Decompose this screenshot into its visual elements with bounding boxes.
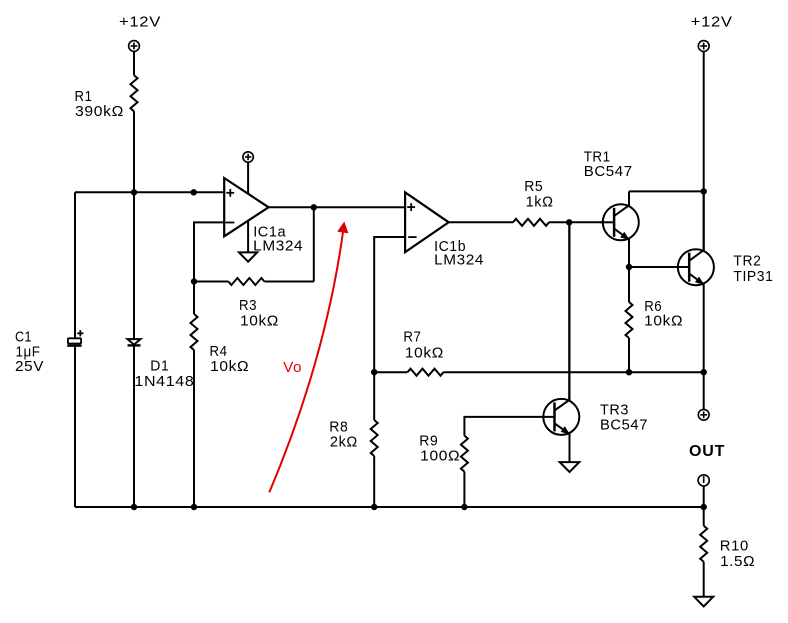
svg-text:TIP31: TIP31 xyxy=(733,268,773,285)
wire R5 to TR1 base xyxy=(549,221,614,223)
svg-text:25V: 25V xyxy=(15,358,44,375)
wire TR3 collector riser xyxy=(568,222,570,399)
op-amp U1 IC1a power pin xyxy=(247,162,249,196)
wire inverting input IC1a xyxy=(194,222,224,314)
power symbol +12V right xyxy=(698,41,709,52)
resistor R3 xyxy=(228,278,264,285)
svg-text:10kΩ: 10kΩ xyxy=(644,313,683,330)
node R3/R4 junction xyxy=(191,278,197,284)
svg-text:+12V: +12V xyxy=(691,14,733,31)
node on + input wire xyxy=(191,189,197,195)
wire Vo red curve xyxy=(269,232,343,492)
wire OUT terminal to rail xyxy=(703,486,705,507)
wire IC1a output to IC1b + input xyxy=(269,206,406,208)
svg-text:BC547: BC547 xyxy=(584,163,633,180)
transistor Q3 TR3 xyxy=(543,222,579,462)
wire mid rail R7 row xyxy=(374,371,407,373)
svg-text:D1: D1 xyxy=(150,357,169,374)
node D1 bottom xyxy=(131,504,137,510)
wire xyxy=(444,371,704,373)
wire TR3 base from R9 xyxy=(464,417,554,436)
power symbol IC1a xyxy=(243,152,253,162)
power terminal OUT plus xyxy=(698,409,709,420)
wire TR1 collector to +12V rail xyxy=(629,190,704,192)
svg-text:R3: R3 xyxy=(239,297,257,314)
node R5/TR1/TR3 xyxy=(566,219,572,225)
resistor R8 xyxy=(371,420,378,456)
ground IC1a xyxy=(239,252,257,261)
wire left branch down to C1 xyxy=(74,192,76,338)
svg-text:2kΩ: 2kΩ xyxy=(330,433,358,450)
wire feedback down xyxy=(313,207,315,281)
node R9 bottom xyxy=(461,504,467,510)
wire xyxy=(193,350,195,507)
node R4 bottom xyxy=(191,504,197,510)
op-amp U2 IC1b xyxy=(405,192,449,252)
wire IC1b output xyxy=(449,221,513,223)
svg-text:1kΩ: 1kΩ xyxy=(526,193,554,210)
svg-text:10kΩ: 10kΩ xyxy=(210,358,249,375)
transistor Q1 TR1 xyxy=(600,191,639,267)
wire inverting input IC1b xyxy=(374,237,405,420)
power symbol +12V left xyxy=(129,41,140,52)
resistor R9 xyxy=(461,436,468,472)
op-amp U1 IC1a ground pin xyxy=(247,218,249,252)
resistor R5 xyxy=(513,219,549,226)
ground R10 xyxy=(694,597,713,607)
wire xyxy=(74,347,76,507)
node TR1 emitter / R6 xyxy=(626,264,632,270)
wire noninverting input IC1a xyxy=(75,191,224,193)
node IC1a output xyxy=(311,204,317,210)
svg-text:10kΩ: 10kΩ xyxy=(240,313,279,330)
svg-text:1N4148: 1N4148 xyxy=(134,373,194,390)
node at R1/D1 xyxy=(131,189,137,195)
terminal OUT xyxy=(698,475,709,486)
wire D1 branch xyxy=(133,192,135,339)
node OUT bottom xyxy=(701,504,707,510)
resistor R1 xyxy=(131,75,138,111)
wire +12V rail xyxy=(703,51,705,250)
svg-text:+12V: +12V xyxy=(119,14,161,31)
ground TR3 emitter xyxy=(560,462,580,472)
node R7/R8 junction xyxy=(371,369,377,375)
svg-text:R7: R7 xyxy=(403,328,421,345)
transistor Q2 TR2 xyxy=(678,191,714,409)
wire feedback horizontal right part xyxy=(264,281,313,283)
wire bottom rail xyxy=(75,506,704,508)
wire xyxy=(194,281,228,283)
svg-text:100Ω: 100Ω xyxy=(420,448,460,465)
wire xyxy=(463,472,465,507)
svg-text:LM324: LM324 xyxy=(434,252,484,269)
svg-text:Vo: Vo xyxy=(283,359,302,376)
node R8 bottom xyxy=(371,504,377,510)
op-amp U1 IC1a xyxy=(224,178,268,236)
capacitor C1 xyxy=(67,330,83,345)
wire xyxy=(133,111,135,192)
svg-text:10kΩ: 10kΩ xyxy=(405,344,444,361)
resistor R4 xyxy=(191,314,198,350)
wire TR1 emitter to TR2 base xyxy=(629,266,689,268)
node at +12V rail xyxy=(701,188,707,194)
resistor R10 xyxy=(703,507,705,526)
svg-text:OUT: OUT xyxy=(689,443,725,460)
svg-text:LM324: LM324 xyxy=(253,237,303,254)
svg-text:R10: R10 xyxy=(720,538,749,555)
wire xyxy=(373,456,375,507)
svg-text:BC547: BC547 xyxy=(600,417,648,434)
node mid rail right xyxy=(701,369,707,375)
resistor R6 xyxy=(628,267,630,302)
svg-text:1.5Ω: 1.5Ω xyxy=(720,553,755,570)
wire xyxy=(133,345,135,507)
node R6 bottom xyxy=(626,369,632,375)
wire xyxy=(133,51,135,75)
svg-text:390kΩ: 390kΩ xyxy=(75,103,124,120)
diode D1 xyxy=(128,339,141,345)
resistor R7 xyxy=(408,369,444,376)
